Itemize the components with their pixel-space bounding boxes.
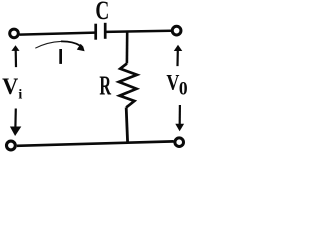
resistor R body (zigzag) xyxy=(119,64,137,108)
arrow: Vo polarity up (right top) xyxy=(174,45,183,66)
wire: top-left (input to capacitor) xyxy=(20,33,96,35)
label: I (current) xyxy=(59,49,62,64)
label: V0 (output voltage) xyxy=(166,71,187,99)
arrow: Vi polarity down (left bottom) xyxy=(10,109,21,137)
label: Vi (input voltage) xyxy=(2,74,22,103)
terminal: top-right output xyxy=(172,26,181,35)
arrow: current I (curved) xyxy=(35,41,84,51)
arrow: Vo polarity down (right bottom) xyxy=(175,105,184,131)
wire: top-right (capacitor to output) xyxy=(106,31,171,32)
wire: resistor bottom lead to bottom wire xyxy=(126,107,127,142)
svg-text:i: i xyxy=(18,88,22,103)
svg-text:R: R xyxy=(99,70,111,100)
wire: resistor top lead from node xyxy=(126,31,129,64)
capacitor C1 right plate xyxy=(104,23,107,39)
svg-text:V: V xyxy=(166,71,179,95)
terminal: top-left input xyxy=(10,29,19,38)
svg-text:0: 0 xyxy=(179,78,188,99)
arrow: Vi polarity up (left top) xyxy=(11,45,19,67)
terminal: bottom-right output xyxy=(175,138,184,147)
svg-text:V: V xyxy=(2,74,19,100)
capacitor C1 left plate xyxy=(94,24,97,40)
terminal: bottom-left input xyxy=(6,141,15,150)
svg-text:C: C xyxy=(95,0,109,25)
wire: bottom return xyxy=(17,141,174,145)
